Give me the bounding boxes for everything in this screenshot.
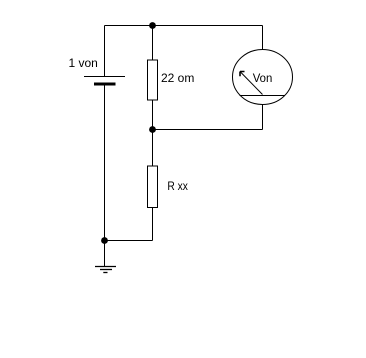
svg-text:R xx: R xx: [167, 179, 188, 193]
svg-text:22 om: 22 om: [161, 71, 194, 85]
svg-text:Von: Von: [253, 71, 273, 85]
svg-text:1 von: 1 von: [69, 56, 98, 70]
